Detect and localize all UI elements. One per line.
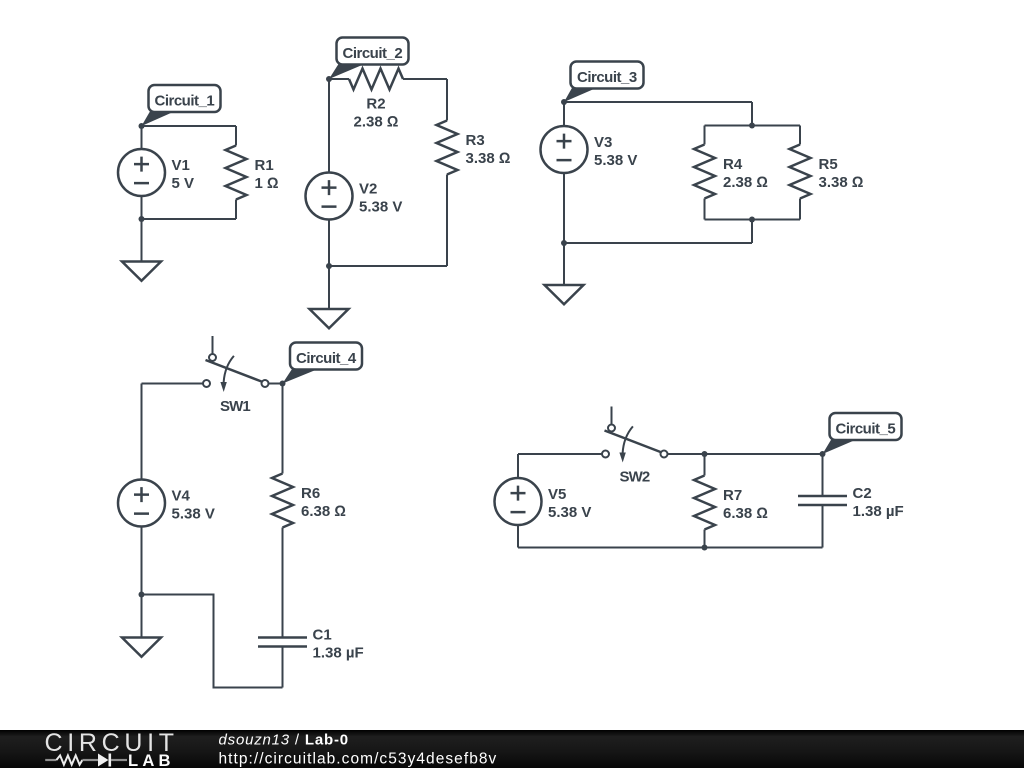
svg-text:1.38 µF: 1.38 µF bbox=[313, 645, 364, 662]
switch SW2 bbox=[602, 407, 668, 463]
footer bar bbox=[0, 730, 1024, 768]
junction parallel top bbox=[749, 123, 755, 129]
wire R6 to C1 bbox=[282, 528, 284, 638]
svg-text:R6: R6 bbox=[301, 485, 320, 502]
voltage source V4 bbox=[118, 480, 165, 527]
svg-text:SW1: SW1 bbox=[220, 398, 250, 415]
wire V1 bottom bbox=[141, 196, 143, 219]
node B circuit 1 bottom bbox=[139, 216, 145, 222]
wire V3 bottom bbox=[563, 173, 565, 243]
svg-text:R5: R5 bbox=[819, 156, 838, 173]
wire bottom rail circuit 5 bbox=[518, 547, 823, 549]
logo diode bbox=[98, 754, 109, 767]
resistor R2 bbox=[349, 69, 403, 90]
resistor R1 bbox=[226, 146, 247, 200]
wire bottom rail circuit 3 bbox=[564, 242, 752, 244]
wire V1 top bbox=[141, 126, 143, 149]
svg-text:R3: R3 bbox=[466, 132, 485, 149]
wire C2 top lead bbox=[822, 454, 824, 496]
resistor R7 bbox=[694, 476, 715, 530]
node B circuit 2 bottom bbox=[326, 263, 332, 269]
svg-text:5.38 V: 5.38 V bbox=[359, 199, 402, 216]
svg-text:1.38 µF: 1.38 µF bbox=[853, 503, 904, 520]
wire R3 bottom lead bbox=[446, 175, 448, 267]
wire V5 top bbox=[517, 454, 519, 478]
wire R4 top lead bbox=[704, 126, 706, 145]
wire R2 left lead bbox=[329, 78, 349, 80]
wire ground stem circuit 3 bbox=[563, 243, 565, 285]
wire top rail circuit 3 bbox=[564, 101, 752, 103]
resistor R3 bbox=[437, 121, 458, 175]
wire R2 right lead bbox=[403, 78, 447, 80]
wire R7 bottom lead bbox=[704, 530, 706, 548]
svg-text:V2: V2 bbox=[359, 181, 377, 198]
wire down from parallel rail bbox=[751, 220, 753, 244]
wire down to parallel rail bbox=[751, 102, 753, 126]
junction R7 top bbox=[702, 451, 708, 457]
resistor R4 bbox=[694, 145, 715, 199]
wire top rail circuit 1 bbox=[142, 125, 237, 127]
capacitor C1 bbox=[258, 638, 307, 647]
node B circuit 3 bottom bbox=[561, 240, 567, 246]
svg-text:5 V: 5 V bbox=[172, 175, 195, 192]
wire R1 bottom lead bbox=[235, 200, 237, 220]
ground circuit 4 bbox=[122, 638, 161, 657]
wire V2 top bbox=[328, 79, 330, 173]
wire R4 bottom lead bbox=[704, 199, 706, 220]
svg-text:V1: V1 bbox=[172, 157, 190, 174]
svg-text:Circuit_1: Circuit_1 bbox=[155, 93, 215, 110]
wire ground stem circuit 4 bbox=[141, 595, 143, 638]
junction R7 bottom bbox=[702, 545, 708, 551]
svg-text:C2: C2 bbox=[853, 485, 872, 502]
node circuit 5 right bbox=[820, 451, 826, 457]
junction parallel bottom bbox=[749, 217, 755, 223]
ground circuit 3 bbox=[545, 285, 584, 304]
node circuit 4 bottom bbox=[139, 592, 145, 598]
wire bottom rail circuit 2 bbox=[329, 265, 447, 267]
wire bottom return circuit 4 bbox=[142, 595, 283, 688]
wire bottom rail circuit 1 bbox=[142, 218, 237, 220]
wire R7 top lead bbox=[704, 454, 706, 476]
voltage source V1 bbox=[118, 149, 165, 196]
svg-text:5.38 V: 5.38 V bbox=[594, 152, 637, 169]
svg-text:V5: V5 bbox=[548, 486, 566, 503]
wire switch SW1 right lead bbox=[269, 383, 283, 385]
wire ground stem circuit 2 bbox=[328, 266, 330, 309]
svg-text:Circuit_3: Circuit_3 bbox=[577, 69, 637, 86]
resistor R5 bbox=[790, 145, 811, 199]
label flag Circuit_1 bbox=[142, 111, 177, 127]
capacitor C2 bbox=[798, 496, 847, 505]
wire switch SW2 right lead bbox=[668, 453, 823, 455]
switch SW1 bbox=[203, 336, 269, 392]
label flag Circuit_2 bbox=[329, 64, 365, 79]
wire V5 bottom bbox=[517, 525, 519, 548]
wire ground stem circuit 1 bbox=[141, 219, 143, 262]
svg-text:R2: R2 bbox=[366, 96, 385, 113]
svg-text:3.38 Ω: 3.38 Ω bbox=[819, 174, 864, 191]
ground circuit 2 bbox=[310, 309, 349, 328]
ground circuit 1 bbox=[122, 262, 161, 281]
svg-text:2.38 Ω: 2.38 Ω bbox=[354, 114, 399, 131]
logo resistor bbox=[56, 755, 82, 764]
wire R6 top lead bbox=[282, 384, 284, 474]
svg-text:http://circuitlab.com/c53y4des: http://circuitlab.com/c53y4desefb8v bbox=[219, 751, 498, 768]
svg-text:3.38 Ω: 3.38 Ω bbox=[466, 150, 511, 167]
svg-text:V3: V3 bbox=[594, 134, 612, 151]
svg-text:Circuit_4: Circuit_4 bbox=[296, 350, 357, 367]
svg-text:1 Ω: 1 Ω bbox=[255, 175, 279, 192]
wire V3 top bbox=[563, 102, 565, 126]
svg-text:R1: R1 bbox=[255, 157, 274, 174]
logo lead wire left bbox=[45, 759, 56, 761]
wire R3 top lead bbox=[446, 79, 448, 121]
svg-text:R7: R7 bbox=[723, 487, 742, 504]
wire V2 bottom bbox=[328, 220, 330, 267]
wire V4 bottom bbox=[141, 527, 143, 595]
wire C1 bottom lead bbox=[282, 647, 284, 688]
resistor R6 bbox=[272, 474, 293, 528]
label flag Circuit_3 bbox=[564, 87, 599, 102]
voltage source V2 bbox=[306, 173, 353, 220]
svg-text:Circuit_2: Circuit_2 bbox=[343, 45, 403, 62]
voltage source V3 bbox=[541, 126, 588, 173]
svg-text:R4: R4 bbox=[723, 156, 743, 173]
logo wire right bbox=[111, 759, 127, 761]
svg-text:C1: C1 bbox=[313, 627, 332, 644]
svg-text:6.38 Ω: 6.38 Ω bbox=[723, 505, 768, 522]
svg-text:Circuit_5: Circuit_5 bbox=[836, 421, 896, 438]
wire parallel top rail bbox=[705, 125, 801, 127]
wire top rail left circuit 5 bbox=[518, 453, 602, 455]
node circuit 4 switch output bbox=[280, 381, 286, 387]
logo wire mid bbox=[82, 759, 98, 761]
svg-text:5.38 V: 5.38 V bbox=[172, 506, 215, 523]
wire R5 bottom lead bbox=[799, 199, 801, 220]
node A circuit 1 top bbox=[139, 123, 145, 129]
svg-text:SW2: SW2 bbox=[620, 469, 650, 486]
wire C2 bottom lead bbox=[822, 505, 824, 548]
wire switch SW1 left lead bbox=[142, 383, 204, 385]
voltage source V5 bbox=[495, 478, 542, 525]
wire V4 top bbox=[141, 384, 143, 480]
svg-text:5.38 V: 5.38 V bbox=[548, 504, 591, 521]
svg-text:2.38 Ω: 2.38 Ω bbox=[723, 174, 768, 191]
node A circuit 3 top bbox=[561, 99, 567, 105]
wire R1 top lead bbox=[235, 126, 237, 146]
svg-text:dsouzn13 / Lab-0: dsouzn13 / Lab-0 bbox=[219, 732, 349, 749]
label flag Circuit_4 bbox=[283, 369, 319, 384]
wire R5 top lead bbox=[799, 126, 801, 145]
label flag Circuit_5 bbox=[823, 439, 858, 454]
svg-text:6.38 Ω: 6.38 Ω bbox=[301, 503, 346, 520]
wire parallel bottom rail bbox=[705, 219, 801, 221]
node A circuit 2 top bbox=[326, 76, 332, 82]
svg-text:V4: V4 bbox=[172, 488, 191, 505]
svg-text:LAB: LAB bbox=[128, 751, 175, 768]
